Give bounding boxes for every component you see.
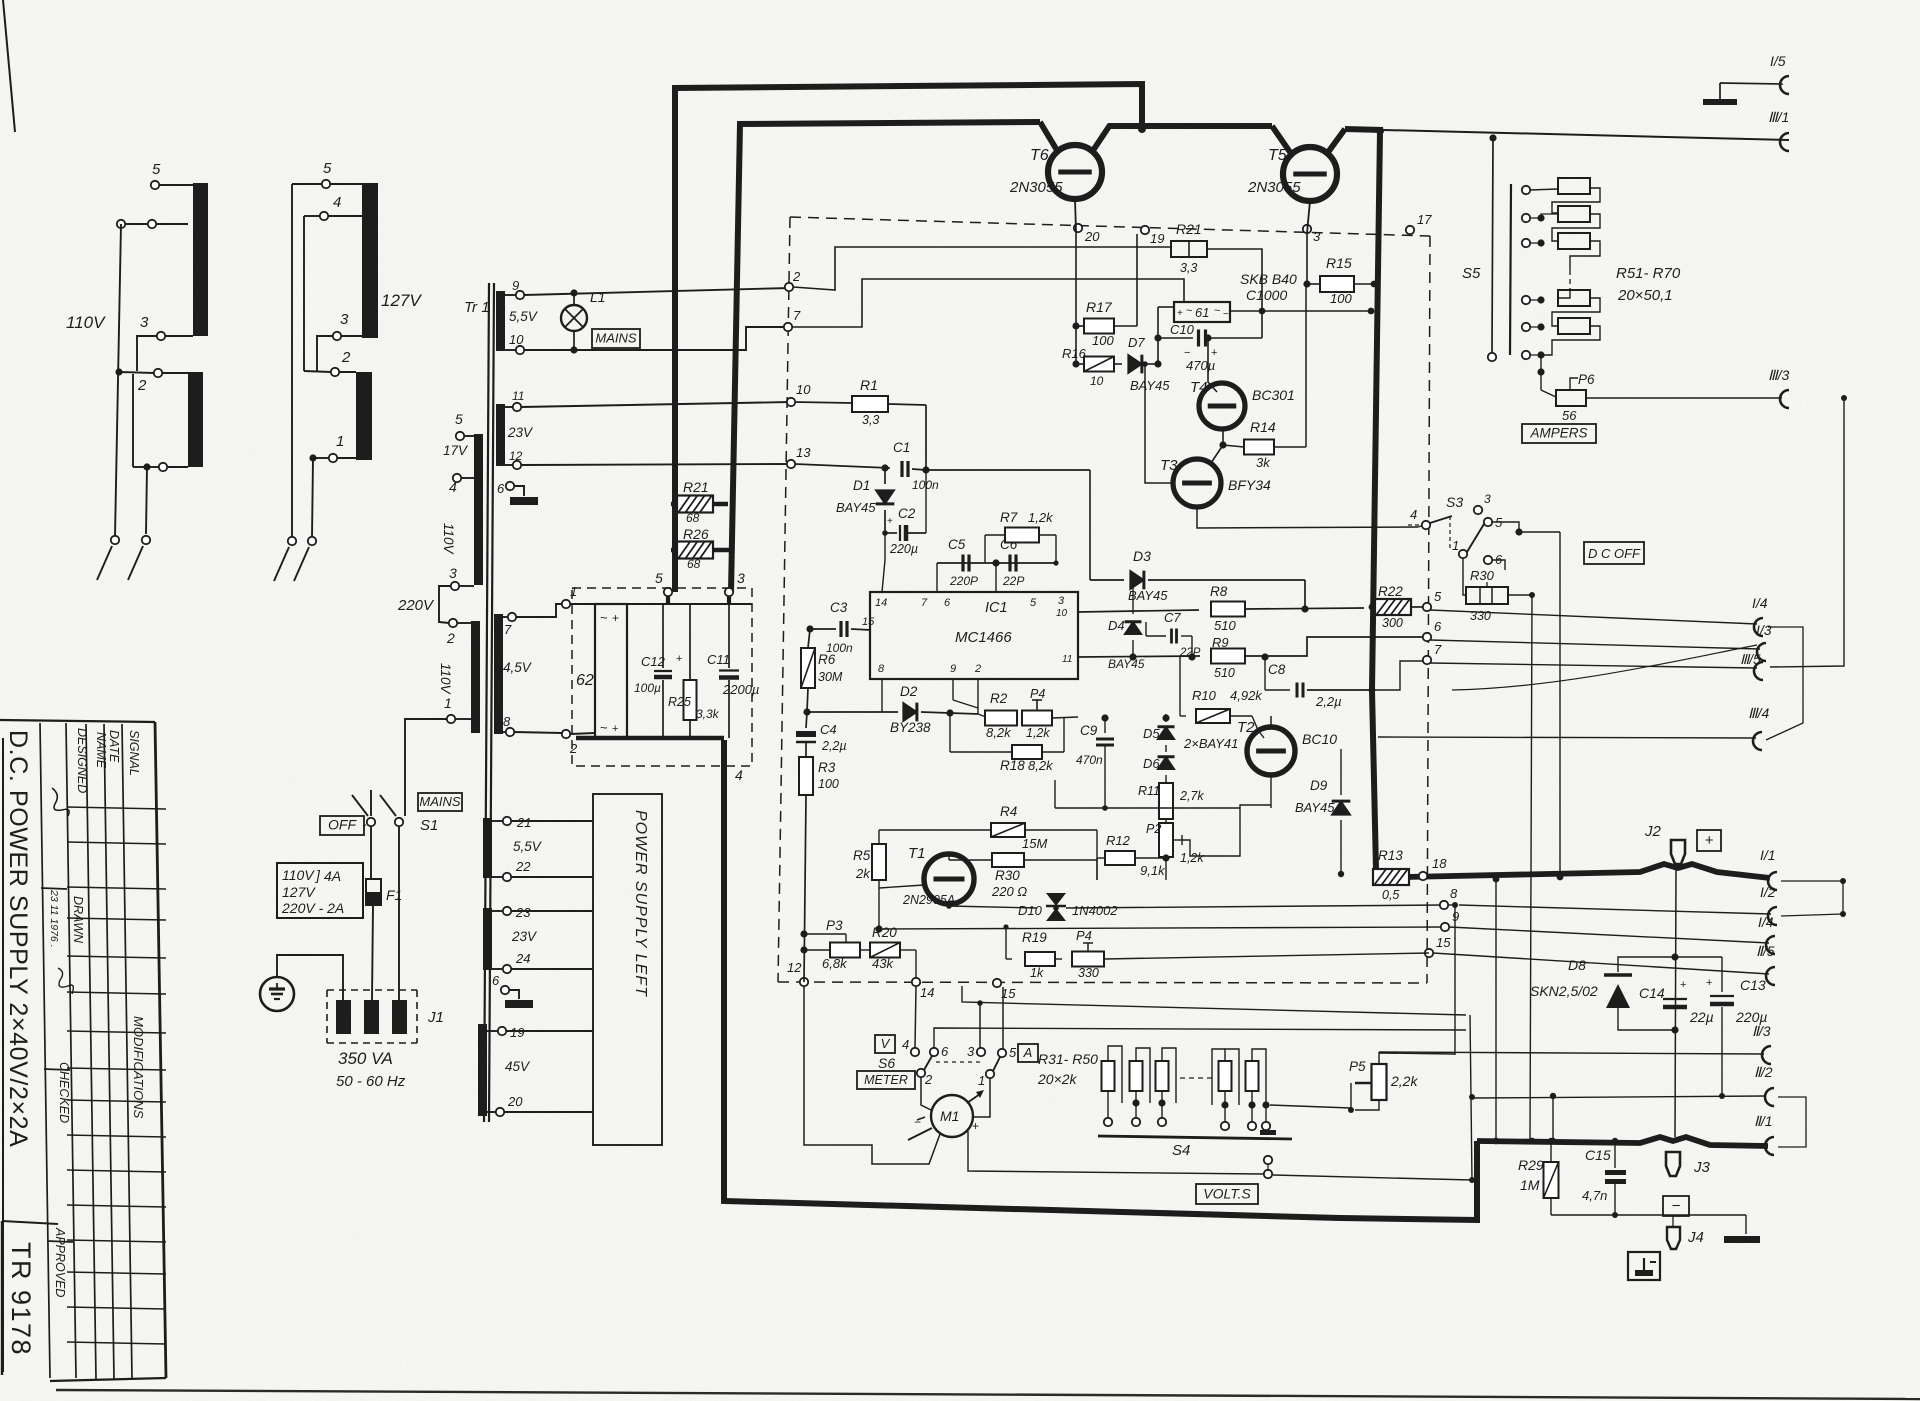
wire bbox=[304, 216, 362, 371]
switch S4 bus bbox=[1098, 1136, 1292, 1159]
label DESIGNED bbox=[75, 728, 89, 793]
svg-text:510: 510 bbox=[1214, 618, 1236, 633]
wire bbox=[882, 533, 885, 592]
svg-text:1M: 1M bbox=[1520, 1177, 1540, 1193]
junction bbox=[1369, 687, 1376, 694]
svg-text:6: 6 bbox=[941, 1044, 949, 1059]
svg-text:POWER SUPPLY LEFT: POWER SUPPLY LEFT bbox=[632, 810, 649, 997]
node 2 (Tr1) bbox=[446, 619, 457, 646]
switch S5 contact bbox=[1522, 186, 1530, 194]
svg-text:C1: C1 bbox=[893, 440, 910, 455]
svg-text:4,5V: 4,5V bbox=[503, 660, 533, 675]
diode D6 BAY41 bbox=[1143, 736, 1238, 783]
svg-text:3,3: 3,3 bbox=[1180, 261, 1197, 275]
svg-text:BAY45: BAY45 bbox=[1128, 588, 1168, 603]
wire R4 line bbox=[879, 829, 990, 831]
svg-text:+: + bbox=[1680, 979, 1686, 991]
svg-text:S5: S5 bbox=[1462, 265, 1481, 282]
junction bbox=[977, 1000, 983, 1006]
svg-text:−: − bbox=[1223, 309, 1229, 320]
meter M1 bbox=[908, 1090, 984, 1140]
junction bbox=[1452, 902, 1458, 908]
resistor R13 0.5 bbox=[1373, 848, 1409, 902]
svg-text:I/1: I/1 bbox=[1760, 847, 1776, 863]
junction bbox=[570, 346, 577, 353]
svg-text:9,1k: 9,1k bbox=[1140, 863, 1166, 878]
wire bbox=[398, 826, 400, 1000]
svg-text:CHECKED: CHECKED bbox=[57, 1062, 71, 1123]
wire bbox=[159, 184, 193, 186]
svg-text:C3: C3 bbox=[830, 600, 848, 615]
svg-text:61: 61 bbox=[1195, 305, 1209, 320]
label date 23 11 1976 bbox=[48, 889, 60, 948]
svg-text:100: 100 bbox=[818, 777, 839, 791]
svg-text:D8: D8 bbox=[1568, 957, 1586, 973]
svg-text:5: 5 bbox=[655, 570, 663, 586]
svg-text:22µ: 22µ bbox=[1689, 1009, 1714, 1025]
pin 3 bbox=[1058, 595, 1065, 607]
svg-text:23: 23 bbox=[515, 905, 531, 920]
svg-text:2×BAY41: 2×BAY41 bbox=[1183, 736, 1238, 751]
junction bbox=[1537, 368, 1544, 375]
wire pin14 path bbox=[915, 986, 916, 1048]
wire bbox=[921, 1077, 931, 1110]
ground bbox=[510, 497, 538, 505]
node 22 bbox=[503, 859, 531, 881]
svg-text:2200µ: 2200µ bbox=[722, 682, 759, 697]
svg-text:BAY45: BAY45 bbox=[1130, 378, 1170, 393]
diode D1 BAY45 bbox=[836, 468, 894, 533]
wire bbox=[457, 622, 471, 624]
wire S3 feed bbox=[1418, 525, 1424, 527]
junction bbox=[1489, 134, 1496, 141]
resistor R26 68 bbox=[677, 526, 713, 571]
svg-text:R3: R3 bbox=[818, 760, 836, 775]
svg-text:T6: T6 bbox=[1030, 147, 1049, 164]
svg-text:5: 5 bbox=[1030, 597, 1037, 609]
svg-text:MODIFICATIONS: MODIFICATIONS bbox=[131, 1016, 146, 1119]
svg-text:+: + bbox=[612, 611, 619, 625]
svg-text:2: 2 bbox=[137, 377, 147, 394]
svg-text:100: 100 bbox=[1330, 291, 1352, 306]
resistor R55 ladder bbox=[1558, 318, 1590, 334]
svg-text:21: 21 bbox=[516, 815, 531, 830]
svg-text:A: A bbox=[1023, 1045, 1033, 1060]
svg-text:NAME: NAME bbox=[94, 732, 108, 769]
junction bbox=[1368, 308, 1375, 315]
wire T4 bottom lead bbox=[1222, 429, 1224, 445]
switch lever bbox=[97, 546, 112, 580]
svg-text:5: 5 bbox=[1434, 589, 1442, 604]
resistor R22 300 bbox=[1375, 584, 1423, 630]
svg-text:8,2k: 8,2k bbox=[986, 725, 1012, 740]
svg-text:R18: R18 bbox=[1000, 758, 1025, 773]
svg-text:12: 12 bbox=[509, 449, 523, 463]
node 3 (62) bbox=[725, 570, 745, 596]
svg-text:9: 9 bbox=[512, 278, 519, 293]
svg-text:20×2k: 20×2k bbox=[1037, 1071, 1078, 1087]
wire bbox=[1090, 470, 1124, 580]
svg-text:1,2k: 1,2k bbox=[1026, 726, 1050, 740]
wire bbox=[514, 486, 524, 496]
svg-text:1,2k: 1,2k bbox=[1028, 510, 1054, 525]
diode D4 BAY45 bbox=[1108, 618, 1145, 671]
junction bbox=[1548, 1138, 1618, 1144]
resistor R11 2.7k bbox=[1138, 783, 1204, 819]
label AMPERS box bbox=[1522, 424, 1596, 443]
resistor R35 chain bbox=[1246, 1061, 1259, 1091]
svg-text:Tr 1: Tr 1 bbox=[464, 299, 490, 316]
svg-text:R20: R20 bbox=[872, 925, 897, 940]
svg-text:20×50,1: 20×50,1 bbox=[1617, 287, 1673, 304]
wire bbox=[1078, 656, 1200, 657]
node 5 pin bbox=[1423, 589, 1442, 611]
svg-text:470µ: 470µ bbox=[1186, 358, 1215, 373]
wire bold rail B2 bbox=[1108, 123, 1272, 129]
wire bbox=[1519, 531, 1560, 533]
svg-text:11: 11 bbox=[512, 389, 524, 403]
wire T3 emitter bbox=[1197, 507, 1418, 528]
wire bbox=[1104, 718, 1106, 733]
junction bbox=[800, 930, 807, 953]
junction bbox=[1529, 592, 1535, 598]
svg-text:127V: 127V bbox=[282, 884, 316, 900]
node 2 (110V selector) bbox=[137, 369, 162, 394]
node 15 pin right bbox=[1425, 935, 1451, 957]
svg-text:56: 56 bbox=[1562, 408, 1577, 423]
label 5,5V bbox=[509, 309, 539, 324]
resistor R17 100 bbox=[1076, 299, 1137, 348]
wire bbox=[1304, 580, 1306, 608]
label polarity icon bbox=[1628, 1252, 1660, 1280]
svg-text:62: 62 bbox=[576, 672, 594, 689]
resistor R5 2k bbox=[853, 844, 886, 881]
wire bbox=[119, 372, 154, 373]
wire bbox=[147, 463, 188, 471]
wire bbox=[1165, 819, 1167, 824]
junction bbox=[1515, 528, 1522, 535]
junction bbox=[1371, 281, 1378, 288]
terminal I/5 bbox=[1770, 53, 1789, 94]
svg-text:3: 3 bbox=[140, 314, 149, 331]
svg-text:5: 5 bbox=[152, 161, 161, 178]
svg-text:100: 100 bbox=[1092, 333, 1114, 348]
svg-text:2: 2 bbox=[924, 1072, 933, 1087]
svg-text:BAY45: BAY45 bbox=[1295, 800, 1335, 815]
junction bbox=[1101, 714, 1169, 721]
svg-text:M1: M1 bbox=[940, 1108, 959, 1124]
wire II bracket bbox=[1778, 1097, 1806, 1147]
svg-text:5: 5 bbox=[323, 160, 332, 177]
svg-text:13: 13 bbox=[796, 445, 811, 460]
wire ladder links bbox=[1530, 188, 1600, 355]
svg-text:R9: R9 bbox=[1212, 635, 1229, 650]
node 2 (127V selector) bbox=[331, 349, 351, 376]
terminal III/4 bbox=[1748, 705, 1770, 750]
title block column line bbox=[40, 723, 50, 1378]
wire y905 ext bbox=[1448, 905, 1455, 1055]
svg-text:D4: D4 bbox=[1108, 618, 1125, 633]
capacitor C3 100n bbox=[826, 600, 871, 655]
node 5 (62) bbox=[655, 570, 672, 596]
terminal II/5 bbox=[1756, 943, 1775, 985]
resistor R34 chain bbox=[1219, 1061, 1232, 1091]
svg-text:R7: R7 bbox=[1000, 510, 1018, 525]
node 11 bbox=[512, 389, 524, 411]
diode D8 SKN2.5/02 bbox=[1530, 957, 1632, 1024]
svg-text:R5: R5 bbox=[853, 848, 871, 863]
svg-text:TR 9178: TR 9178 bbox=[6, 1242, 36, 1356]
potentiometer P3 6.8k bbox=[804, 918, 860, 971]
node 20 bbox=[496, 1094, 523, 1116]
svg-text:2,2µ: 2,2µ bbox=[1315, 694, 1342, 709]
node 20 pin bbox=[1074, 224, 1100, 244]
node 3 (Tr1) bbox=[449, 565, 459, 590]
resistor R21 68 bbox=[677, 479, 713, 525]
connector J4 bbox=[1667, 1227, 1704, 1249]
label VOLTS box bbox=[1196, 1184, 1258, 1204]
capacitor C13 220u bbox=[1706, 957, 1767, 1096]
ground bbox=[1724, 1236, 1760, 1243]
capacitor C5 220P bbox=[948, 537, 978, 588]
resistor R29 1M bbox=[1518, 1141, 1559, 1215]
wire T1 base bbox=[879, 885, 924, 888]
junction bbox=[1219, 441, 1226, 448]
pin 9 bbox=[950, 663, 956, 675]
label 110V primary bbox=[441, 523, 456, 556]
wire bbox=[1720, 83, 1783, 99]
winding bar 127V selector upper bbox=[362, 183, 378, 338]
pin 11 bbox=[1062, 654, 1072, 665]
wire bbox=[137, 336, 157, 371]
svg-text:D C OFF: D C OFF bbox=[1588, 546, 1641, 561]
diode D3 BAY45 bbox=[1128, 548, 1305, 603]
node 2 (62) bbox=[562, 730, 578, 756]
title block outer frame bbox=[0, 720, 166, 1381]
svg-text:T3: T3 bbox=[1160, 457, 1178, 474]
switch contact bbox=[308, 537, 316, 545]
svg-text:S4: S4 bbox=[1172, 1142, 1190, 1159]
junction bbox=[1154, 360, 1161, 367]
wire bbox=[1230, 310, 1262, 312]
wire vert x1532 bbox=[1530, 595, 1532, 1141]
node 8 sec bbox=[503, 714, 514, 736]
svg-text:22P: 22P bbox=[1002, 574, 1024, 588]
wire bbox=[979, 1003, 981, 1048]
junction bbox=[1003, 924, 1008, 929]
rectifier 61 bbox=[1174, 302, 1230, 322]
pin 7 bbox=[921, 597, 928, 609]
svg-text:220P: 220P bbox=[949, 574, 978, 588]
node 4 (62) bbox=[735, 767, 743, 783]
wire T2 emitter bbox=[1270, 775, 1272, 808]
svg-text:D6: D6 bbox=[1143, 756, 1160, 771]
svg-text:DESIGNED: DESIGNED bbox=[75, 728, 89, 793]
terminal III/5 bbox=[1740, 652, 1763, 680]
svg-text:~: ~ bbox=[1186, 305, 1192, 317]
wire pin7 feed bbox=[792, 279, 1184, 327]
junction bbox=[1261, 653, 1268, 660]
svg-text:110V: 110V bbox=[66, 313, 106, 332]
wire D8 branch bbox=[1618, 957, 1675, 1030]
title text D.C. POWER SUPPLY bbox=[4, 730, 32, 1147]
svg-text:15: 15 bbox=[1436, 935, 1451, 950]
svg-text:OFF: OFF bbox=[328, 817, 357, 833]
label 23V(23-24) bbox=[511, 929, 538, 944]
switch S5 common bbox=[1488, 138, 1496, 361]
svg-text:DRAWN: DRAWN bbox=[71, 896, 85, 944]
svg-text:R16: R16 bbox=[1062, 346, 1087, 361]
svg-text:D5: D5 bbox=[1143, 726, 1160, 741]
svg-text:BC301: BC301 bbox=[1252, 387, 1295, 403]
pin 2 bbox=[974, 663, 981, 675]
label MAINS lamp box bbox=[592, 329, 640, 348]
svg-text:R14: R14 bbox=[1250, 419, 1276, 435]
wire bbox=[1508, 594, 1532, 596]
bridge rectifier 62 bbox=[576, 604, 627, 738]
svg-text:Ⅲ/3: Ⅲ/3 bbox=[1768, 367, 1790, 383]
capacitor C14 22u bbox=[1639, 979, 1714, 1025]
transistor T2 BC10 bbox=[1237, 719, 1337, 775]
transistor T6 2N3055 bbox=[1009, 145, 1102, 199]
svg-text:C9: C9 bbox=[1080, 723, 1098, 738]
svg-text:I/2: I/2 bbox=[1760, 884, 1776, 900]
terminal I/1 bbox=[1760, 847, 1777, 890]
svg-text:10: 10 bbox=[1090, 374, 1104, 388]
svg-text:~: ~ bbox=[600, 610, 608, 625]
svg-text:510: 510 bbox=[1214, 666, 1235, 680]
svg-text:10: 10 bbox=[796, 382, 811, 397]
switch S4 contacts bbox=[1104, 1118, 1270, 1130]
svg-text:2: 2 bbox=[569, 741, 578, 756]
switch S6 bbox=[917, 1044, 1017, 1088]
junction bbox=[1129, 653, 1195, 660]
label CHECKED bbox=[57, 1062, 71, 1123]
junction bbox=[143, 463, 150, 470]
node 9 bbox=[512, 278, 524, 299]
svg-text:+: + bbox=[972, 1119, 979, 1133]
node 23 bbox=[503, 905, 531, 920]
svg-text:C15: C15 bbox=[1585, 1147, 1611, 1163]
wire y927 bbox=[879, 927, 1445, 929]
wire II/2 line bbox=[1472, 1096, 1765, 1098]
wire bbox=[804, 934, 846, 942]
svg-text:20: 20 bbox=[1084, 229, 1100, 244]
svg-text:D9: D9 bbox=[1310, 778, 1328, 793]
resistor R18 8.2k bbox=[1000, 718, 1064, 773]
node 4 (Tr1) bbox=[449, 474, 461, 495]
label V box bbox=[875, 1035, 895, 1053]
junction bbox=[1550, 1093, 1556, 1144]
label 4,5V bbox=[503, 660, 533, 675]
resistor R51 ladder bbox=[1558, 178, 1590, 194]
svg-text:METER: METER bbox=[864, 1073, 908, 1087]
svg-text:2: 2 bbox=[341, 349, 351, 366]
wire T2 base bbox=[1252, 716, 1264, 738]
wire right stub bbox=[1781, 881, 1843, 916]
wire bbox=[487, 1031, 498, 1112]
earth symbol bbox=[260, 977, 294, 1011]
pin 14 bbox=[875, 597, 887, 609]
junction bbox=[1671, 953, 1678, 1033]
node 18 bbox=[1419, 856, 1447, 880]
wire bbox=[1066, 905, 1444, 908]
junction bbox=[1138, 125, 1146, 133]
node 5 (Tr1) bbox=[455, 411, 464, 440]
node 1 (62) bbox=[562, 584, 577, 608]
node 24 bbox=[503, 951, 531, 973]
svg-text:7: 7 bbox=[921, 597, 928, 609]
svg-text:AMPERS: AMPERS bbox=[1529, 426, 1587, 441]
resistor R14 3k bbox=[1223, 419, 1306, 470]
svg-text:1,2k: 1,2k bbox=[1180, 851, 1204, 865]
wire bbox=[146, 467, 147, 534]
junction bbox=[1840, 878, 1846, 917]
svg-text:220V: 220V bbox=[397, 597, 435, 614]
wire II/3 line bbox=[1379, 1052, 1764, 1054]
svg-text:V: V bbox=[881, 1036, 891, 1051]
svg-text:R13: R13 bbox=[1378, 848, 1403, 863]
svg-text:C13: C13 bbox=[1740, 977, 1766, 993]
svg-text:R29: R29 bbox=[1518, 1157, 1544, 1173]
node 19 bbox=[498, 1025, 525, 1040]
capacitor C1 100n bbox=[893, 440, 939, 492]
switch S5 contact bbox=[1522, 351, 1530, 359]
wire pin7 link bbox=[1372, 661, 1423, 690]
svg-text:R8: R8 bbox=[1210, 584, 1228, 599]
wire bbox=[1206, 249, 1262, 338]
fuse F1 bbox=[366, 879, 402, 905]
wire bbox=[1307, 201, 1310, 233]
svg-text:P4: P4 bbox=[1030, 687, 1045, 701]
wire bbox=[516, 604, 562, 617]
junction bbox=[992, 559, 999, 566]
resistor R33 chain bbox=[1156, 1061, 1169, 1091]
svg-text:3,3k: 3,3k bbox=[696, 707, 720, 721]
svg-text:BC10: BC10 bbox=[1302, 731, 1337, 747]
potentiometer P4b 330 bbox=[1055, 928, 1429, 980]
pin 8 bbox=[878, 663, 885, 675]
wire bbox=[1842, 881, 1844, 914]
wire bbox=[1132, 580, 1134, 614]
resistor R25 3.3k bbox=[668, 604, 720, 738]
wire pin2 feed bbox=[793, 247, 1171, 290]
wire bbox=[1264, 657, 1266, 690]
wire bbox=[926, 469, 1090, 471]
wire vert x1553 bbox=[1552, 1096, 1554, 1141]
wire bbox=[504, 1031, 593, 1112]
svg-text:110V: 110V bbox=[282, 867, 315, 883]
wire pin9 down bbox=[953, 679, 978, 708]
junction bbox=[1469, 1094, 1475, 1183]
svg-text:Ⅱ/3: Ⅱ/3 bbox=[1752, 1023, 1771, 1039]
node 14 pin bbox=[912, 978, 935, 1000]
diode D5 BAY41 bbox=[1143, 718, 1175, 741]
wire T1 emitter bbox=[948, 904, 950, 906]
winding bar 5.5V(9-10) bbox=[496, 291, 505, 351]
svg-text:4,92k: 4,92k bbox=[1230, 688, 1263, 703]
resistor R7 1.2k bbox=[1000, 510, 1054, 543]
wire bbox=[570, 604, 595, 734]
svg-text:7: 7 bbox=[793, 308, 801, 323]
svg-text:R4: R4 bbox=[1000, 804, 1017, 819]
junction bbox=[1142, 361, 1148, 367]
wire bold output bbox=[1406, 864, 1770, 878]
svg-text:C14: C14 bbox=[1639, 985, 1665, 1001]
svg-text:9: 9 bbox=[950, 663, 956, 675]
wire bold rail B3b bbox=[1345, 129, 1383, 130]
pin 6 bbox=[944, 597, 951, 609]
